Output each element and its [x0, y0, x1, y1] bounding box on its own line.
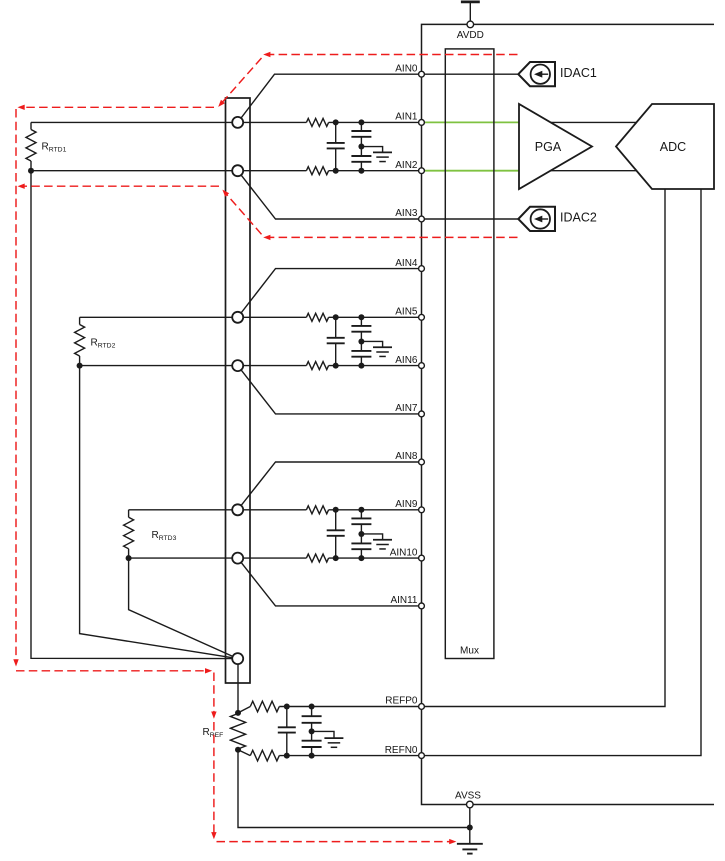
- capacitor differential Cdiff (group 2): [335, 317, 337, 338]
- IDAC1 current path horizontal to left edge: [22, 106, 214, 108]
- junction RRTD3 bottom: [126, 555, 132, 561]
- wire filter R bottom to pin (group 3): [329, 557, 422, 559]
- IDAC1 current path diagonal: [221, 58, 262, 104]
- ADC block: [616, 104, 714, 189]
- junction RREF top: [235, 710, 241, 716]
- IDAC1 current path horizontal (top): [266, 54, 518, 56]
- pin AIN4: [419, 266, 425, 272]
- wire filter R top to pin (group 3): [329, 509, 422, 511]
- IDAC2 current path horizontal to left edge: [22, 185, 219, 187]
- wire cap midpoint to ground (group 3): [361, 534, 382, 540]
- wire RREF bottom to REFN0 filter: [238, 750, 250, 756]
- wire REFP0 filter R to pin: [279, 706, 421, 708]
- wire AVDD stem: [469, 2, 471, 21]
- current source IDAC2 arrow: [542, 218, 548, 220]
- svg-text:IDAC2: IDAC2: [560, 211, 597, 225]
- resistor input filter R top (group 1): [306, 118, 328, 126]
- wire RTD2 third lead to terminal 7: [80, 366, 238, 659]
- svg-text:AVDD: AVDD: [457, 30, 484, 41]
- connector terminal block: [226, 98, 251, 683]
- connector terminal 3: [232, 312, 243, 323]
- ground symbol filter (group 2): [373, 346, 392, 348]
- capacitor common-mode top (group 1): [360, 122, 362, 131]
- IDAC2 current path arrow 3: [18, 184, 25, 189]
- capacitor common-mode top (group 3): [360, 510, 362, 519]
- pin AIN6: [419, 363, 425, 369]
- svg-text:AIN9: AIN9: [395, 499, 418, 510]
- wire reference cap midpoint to ground: [312, 731, 334, 738]
- wire filter R bottom to pin (group 2): [329, 365, 422, 367]
- resistor input filter R bottom (group 1): [306, 167, 328, 175]
- IDAC2 current path diagonal: [226, 193, 262, 234]
- wire RTD3 third lead to terminal 7: [129, 558, 238, 659]
- wire RTD2 top lead / sense line (y=317.3): [80, 316, 307, 318]
- pin AIN0: [419, 71, 425, 77]
- svg-text:IDAC1: IDAC1: [560, 66, 597, 80]
- return current path arrow down 3: [211, 832, 216, 839]
- capacitor reference differential: [286, 707, 288, 728]
- wire RTD1 top lead / sense line (y=122.4): [31, 121, 306, 123]
- junction RRTD1 bottom: [28, 168, 34, 174]
- svg-text:AIN5: AIN5: [395, 307, 418, 318]
- resistor input filter R bottom (group 2): [306, 362, 328, 370]
- return current path arrow right 1: [205, 668, 212, 673]
- resistor RRTD1: [30, 122, 32, 129]
- connector terminal 2: [232, 165, 243, 176]
- connector terminal 4: [232, 360, 243, 371]
- svg-text:AIN8: AIN8: [395, 451, 418, 462]
- wire PGA output to ADC (lower): [545, 170, 642, 172]
- resistor input filter R bottom (group 3): [306, 554, 328, 562]
- label RREF: [199, 722, 229, 741]
- current source IDAC2 body: [518, 207, 555, 231]
- IC outline (ADC chip boundary): [422, 24, 715, 804]
- IDAC2 current path horizontal: [266, 236, 518, 238]
- svg-text:REFP0: REFP0: [385, 696, 418, 707]
- wire REFP0 to ADC: [422, 189, 666, 707]
- IDAC2 current path arrow 1: [263, 235, 270, 240]
- wire terminal 7 to RREF: [237, 659, 239, 713]
- wire AIN4 to terminal 3: [238, 269, 422, 318]
- wire RTD3 bottom lead / sense line (y=558.1): [129, 557, 307, 559]
- IDAC1 current path arrow 2: [216, 100, 225, 109]
- ground symbol filter (group 3): [373, 539, 392, 541]
- capacitor common-mode bottom (group 1): [360, 147, 362, 156]
- wire REFN0 filter R to pin: [279, 755, 421, 757]
- resistor RREF: [230, 714, 245, 750]
- junction dots filter (group 3): [333, 507, 339, 513]
- pin AIN2: [419, 168, 425, 174]
- op-amp PGA: [519, 104, 592, 189]
- return current path vertical to RREF: [213, 673, 215, 714]
- svg-text:PGA: PGA: [535, 140, 562, 154]
- IDAC1 current path arrow 1: [263, 52, 270, 57]
- ground symbol reference filter: [324, 737, 343, 739]
- pin AIN3: [419, 216, 425, 222]
- svg-text:AIN4: AIN4: [395, 258, 418, 269]
- pin AVDD: [467, 21, 474, 28]
- junction RREF bottom: [235, 747, 241, 753]
- svg-text:AIN3: AIN3: [395, 208, 418, 219]
- pin AIN9: [419, 507, 425, 513]
- wire RREF top to REFP0 filter: [238, 707, 250, 713]
- pin AIN8: [419, 459, 425, 465]
- resistor REFP0 filter R: [250, 701, 279, 712]
- return current path arrow down 2: [211, 712, 216, 719]
- wire AIN7 to terminal 4: [238, 366, 422, 414]
- current source IDAC1 arrow: [542, 73, 548, 75]
- wire ground stem: [469, 828, 471, 844]
- svg-text:AIN11: AIN11: [390, 595, 417, 606]
- wire AIN1 to PGA (green): [422, 121, 520, 123]
- junction RRTD2 bottom: [77, 363, 83, 369]
- wire filter R top to pin (group 2): [329, 316, 422, 318]
- return current path bottom horizontal 1: [16, 670, 206, 672]
- resistor RRTD2: [79, 317, 81, 324]
- wire AIN2 to PGA (green): [422, 170, 520, 172]
- pin REFN0: [419, 753, 425, 759]
- pin REFP0: [419, 704, 425, 710]
- power rail AVDD bar: [461, 1, 480, 4]
- svg-text:RRTD1: RRTD1: [42, 142, 67, 154]
- resistor RRTD3: [128, 510, 130, 518]
- capacitor common-mode bottom (group 2): [360, 341, 362, 350]
- svg-text:AIN10: AIN10: [390, 547, 418, 558]
- capacitor common-mode bottom (group 3): [360, 534, 362, 543]
- svg-text:AIN6: AIN6: [395, 355, 418, 366]
- wire RTD2 bottom lead / sense line (y=365.6): [80, 365, 307, 367]
- wire cap midpoint to ground (group 1): [361, 147, 382, 153]
- current source IDAC1 body: [518, 62, 555, 86]
- current source IDAC2 circle: [531, 209, 550, 228]
- return current path vertical past RREF: [213, 722, 215, 835]
- pin AVSS: [467, 801, 474, 808]
- wire AIN0 to IDAC1 and terminal 1: [238, 74, 519, 122]
- svg-text:AVSS: AVSS: [455, 790, 481, 801]
- capacitor differential Cdiff (group 3): [335, 510, 337, 531]
- connector terminal 5: [232, 504, 243, 515]
- resistor input filter R top (group 3): [306, 506, 328, 514]
- svg-text:AIN7: AIN7: [395, 403, 418, 414]
- return current path arrow down-left: [13, 659, 18, 666]
- current source IDAC1 circle: [531, 65, 550, 84]
- return current path bottom horizontal 2: [217, 841, 450, 843]
- return current path arrow to ground: [449, 839, 456, 844]
- resistor input filter R top (group 2): [306, 313, 328, 321]
- wire filter R bottom to pin (group 1): [329, 170, 422, 172]
- wire RTD3 top lead / sense line (y=509.8): [129, 509, 307, 511]
- pin AIN5: [419, 314, 425, 320]
- return current path left vertical: [15, 109, 17, 662]
- svg-text:AIN2: AIN2: [395, 160, 418, 171]
- capacitor common-mode top (group 2): [360, 317, 362, 326]
- wire AVSS stem to ground node: [469, 808, 471, 828]
- wire RTD1 bottom lead / sense line (y=170.7): [31, 170, 306, 172]
- wire REFN0 to ADC: [422, 189, 702, 756]
- wire cap midpoint to ground (group 2): [361, 341, 382, 347]
- connector terminal 1: [232, 117, 243, 128]
- junction ground node: [467, 825, 473, 831]
- wire AIN3 to IDAC2 and terminal 2: [238, 171, 519, 219]
- connector terminal 7: [232, 653, 243, 664]
- pin AIN1: [419, 120, 425, 126]
- ground symbol filter (group 1): [373, 151, 392, 153]
- wire PGA output to ADC (upper): [545, 121, 642, 123]
- wire AIN11 to terminal 6: [238, 558, 422, 606]
- capacitor reference common-mode bottom: [311, 731, 313, 740]
- svg-text:AIN0: AIN0: [395, 63, 418, 74]
- svg-text:RRTD2: RRTD2: [91, 338, 116, 350]
- svg-text:Mux: Mux: [460, 646, 479, 657]
- pin AIN7: [419, 411, 425, 417]
- svg-text:REFN0: REFN0: [385, 745, 418, 756]
- capacitor differential Cdiff (group 1): [335, 122, 337, 143]
- svg-text:RRTD3: RRTD3: [152, 530, 177, 542]
- ground symbol (earth): [457, 843, 483, 845]
- wire RTD1 third lead to terminal 7: [31, 171, 238, 659]
- capacitor reference common-mode top: [311, 707, 313, 717]
- wire RREF return to ground node: [238, 750, 470, 828]
- resistor REFN0 filter R: [250, 750, 279, 761]
- svg-text:AIN1: AIN1: [395, 112, 418, 123]
- svg-text:ADC: ADC: [660, 140, 686, 154]
- pin AIN11: [419, 603, 425, 609]
- wire AIN8 to terminal 5: [238, 462, 422, 510]
- wire filter R top to pin (group 1): [329, 121, 422, 123]
- IDAC1 current path arrow 3: [18, 105, 25, 110]
- junction dots filter (group 2): [333, 314, 339, 320]
- IDAC2 current path arrow 2: [220, 188, 229, 197]
- connector terminal 6: [232, 553, 243, 564]
- mux block: [445, 49, 494, 659]
- junction dots reference filter: [284, 704, 290, 710]
- junction dots filter (group 1): [333, 119, 339, 125]
- pin AIN10: [419, 555, 425, 561]
